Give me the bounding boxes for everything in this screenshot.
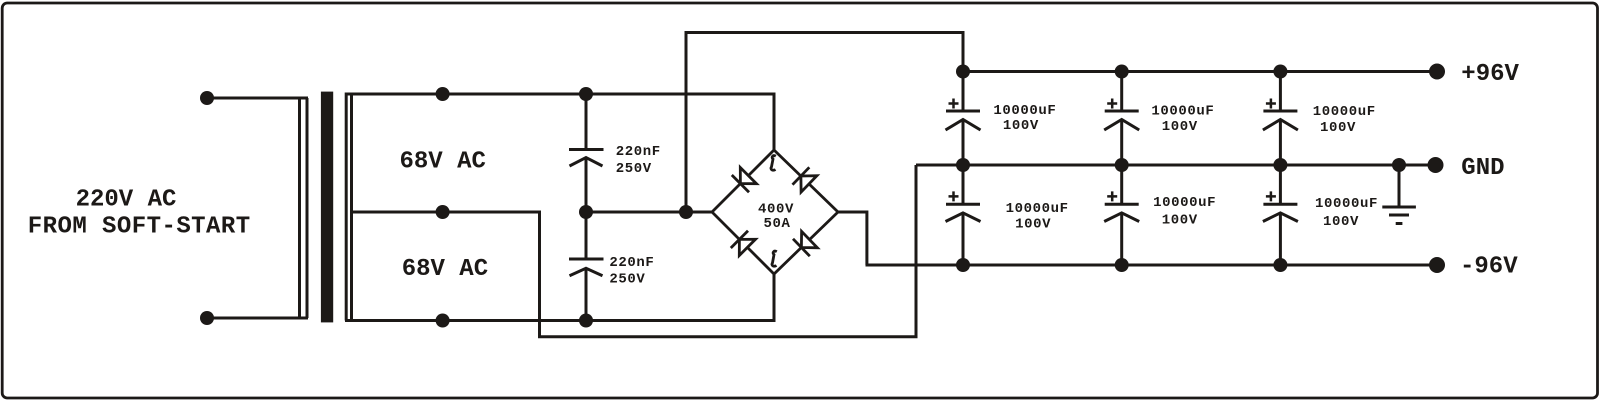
svg-text:10000uF: 10000uF [1153, 195, 1216, 211]
svg-text:50A: 50A [764, 216, 791, 232]
svg-text:10000uF: 10000uF [1315, 196, 1378, 212]
svg-text:100V: 100V [1320, 120, 1356, 136]
svg-text:220nF: 220nF [609, 255, 654, 271]
svg-text:250V: 250V [616, 161, 652, 177]
svg-text:220nF: 220nF [616, 144, 661, 160]
svg-text:10000uF: 10000uF [1006, 201, 1069, 217]
svg-text:100V: 100V [1162, 119, 1198, 135]
svg-text:-96V: -96V [1460, 253, 1518, 280]
svg-text:FROM SOFT-START: FROM SOFT-START [28, 213, 251, 240]
svg-text:10000uF: 10000uF [1313, 104, 1376, 120]
svg-text:100V: 100V [1162, 212, 1198, 228]
svg-text:68V AC: 68V AC [400, 148, 486, 175]
svg-text:100V: 100V [1323, 214, 1359, 230]
svg-text:10000uF: 10000uF [993, 103, 1056, 119]
svg-text:+96V: +96V [1461, 61, 1519, 88]
svg-text:250V: 250V [609, 272, 645, 288]
svg-text:10000uF: 10000uF [1151, 103, 1214, 119]
svg-text:100V: 100V [1003, 118, 1039, 134]
svg-text:68V AC: 68V AC [402, 256, 488, 283]
svg-text:220V AC: 220V AC [76, 186, 177, 213]
svg-text:GND: GND [1461, 155, 1504, 182]
svg-text:100V: 100V [1015, 217, 1051, 233]
